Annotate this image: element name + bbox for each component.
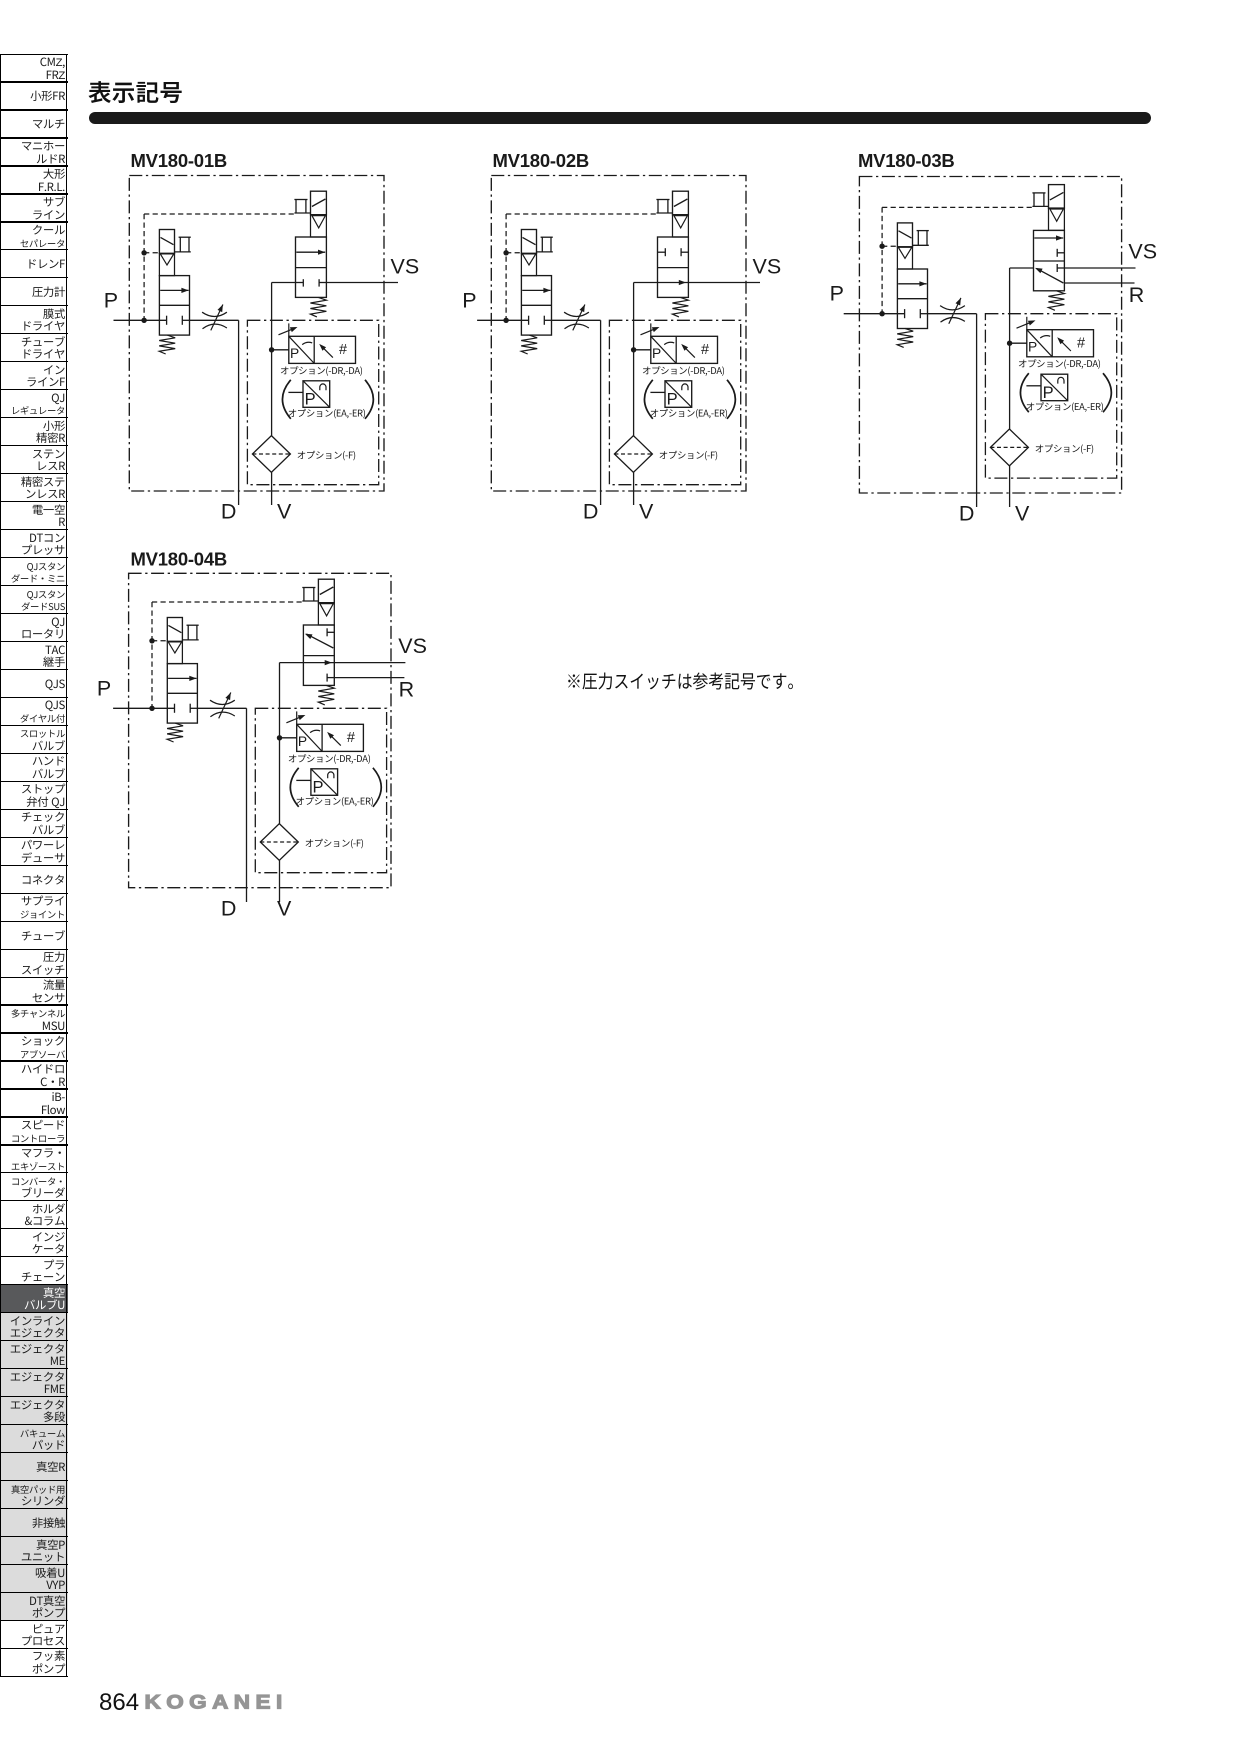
02B SV1 solenoid box [521,230,536,254]
svg-text:VS: VS [391,255,420,279]
02B pilot 2-port valve SV1 body [521,276,551,336]
03B wire: V supply riser [1010,267,1034,269]
03B port P supply line [844,313,905,315]
svg-text:P: P [104,288,118,312]
04B SV2 manual override [302,587,315,589]
02B SV2 manual override [656,199,669,201]
04B SV1 return spring [167,723,183,742]
04B wire to pressure switch [280,737,297,739]
04B pressure switch PS2 (option EA,-ER) [296,779,311,781]
03B pilot line (dashed) vertical [881,207,883,313]
02B wire: V supply riser [634,282,658,284]
04B option (EA,-ER) parentheses [290,768,298,807]
01B SV1 pilot triangle [159,253,174,275]
03B pilot 2-port valve SV1 body [897,269,927,329]
svg-text:オプション(-F): オプション(-F) [659,448,718,462]
svg-text:P: P [652,346,661,361]
svg-text:オプション(-DR,-DA): オプション(-DR,-DA) [280,363,363,377]
01B junction dot to pressure switch [269,347,274,352]
02B port P supply line [477,319,528,321]
01B pressure switch PS1 (option -DR,-DA) [289,336,356,363]
svg-text:D: D [583,499,599,523]
02B junction dot pilot/P line [503,318,508,323]
01B SV2 flow arrow (upper position) [296,251,325,253]
svg-text:VS: VS [1128,239,1157,263]
page header 表示記号 [88,74,183,108]
02B junction dot pilot/solenoid [503,250,508,255]
KOGANEI logo [145,1691,288,1714]
02B filter F (option -F) [614,436,652,473]
01B SV2 solenoid box [311,191,327,215]
svg-text:#: # [347,730,355,746]
03B junction dot pilot/solenoid [879,244,884,249]
01B wire: VS outlet [326,282,398,284]
04B SV1 solenoid box [167,618,182,642]
01B pilot line (dashed) to main valve solenoid [144,213,294,215]
svg-text:R: R [1129,283,1145,307]
03B SV2 exhaust diagonal to R [1037,268,1064,283]
04B SV2 flow arrow (lower position) to VS [303,662,334,664]
04B enclosure box (unit outline) MV180-04B [129,573,391,887]
01B wire: V outlet line [271,472,273,505]
01B pressure switch PS2 (option EA,-ER) [288,391,303,393]
03B SV1 return spring [897,329,913,348]
02B adjustable throttle (needle valve) [552,319,601,321]
02B options enclosure (dashed) [609,320,740,484]
svg-text:オプション(-DR,-DA): オプション(-DR,-DA) [1018,356,1101,370]
04B SV2 exhaust diagonal (upper position) [306,634,333,648]
svg-text:オプション(EA,-ER): オプション(EA,-ER) [296,794,374,808]
svg-text:P: P [97,676,111,700]
04B pilot line (dashed) vertical [151,602,153,708]
03B adjustable throttle (needle valve) [928,313,977,315]
03B junction dot pilot/P line [879,311,884,316]
03B SV1 pilot triangle [897,247,912,269]
03B pressure switch PS2 (option EA,-ER) [1026,385,1041,387]
02B SV1 manual override [541,236,553,238]
04B pressure switch PS1 (option -DR,-DA) [297,724,364,751]
03B SV1 solenoid box [897,223,912,247]
04B SV2 return spring [318,685,334,705]
02B wire to pressure switch [634,349,651,351]
04B SV2 solenoid box [318,579,334,603]
svg-text:P: P [290,346,299,361]
01B wire: D drain line [238,320,240,505]
svg-text:MV180-02B: MV180-02B [493,150,589,171]
02B enclosure box (unit outline) MV180-02B [491,176,746,492]
01B filter F (option -F) [252,436,290,473]
03B SV2 blocked VS (lower position) [1056,264,1058,272]
01B SV2 pilot triangle [311,215,327,237]
03B SV1 flow arrow (upper position) [898,283,926,285]
03B SV2 pilot triangle [1049,208,1065,230]
02B junction dot to pressure switch [631,347,636,352]
01B pressure switch adjustment arrow [288,323,290,336]
02B SV2 return spring [672,297,688,317]
04B pilot line (dashed) to pilot valve solenoid [152,640,167,642]
01B SV2 return spring [310,297,326,317]
svg-text:D: D [959,501,975,525]
svg-text:MV180-01B: MV180-01B [131,150,227,171]
04B SV1 pilot triangle [167,641,182,663]
01B enclosure box (unit outline) MV180-01B [129,176,384,492]
01B pilot line (dashed) to pilot valve solenoid [144,252,159,254]
02B SV1 flow arrow (upper position) [522,289,550,291]
svg-text:オプション(EA,-ER): オプション(EA,-ER) [650,406,728,420]
03B SV2 return spring [1048,291,1064,311]
svg-text:V: V [277,896,292,920]
02B throttle adjustment arrow [573,305,585,331]
01B SV1 manual override [179,236,191,238]
01B wire to pressure switch [272,349,289,351]
svg-text:オプション(EA,-ER): オプション(EA,-ER) [288,406,366,420]
svg-text:オプション(-F): オプション(-F) [1035,441,1094,455]
04B SV2 blocked VS (upper position) [326,628,328,636]
01B junction dot pilot/solenoid [141,250,146,255]
02B wire: D drain line [600,320,602,505]
04B SV2 pilot triangle [318,603,334,625]
02B SV1 blocked ports (lower position) [528,316,530,325]
04B pressure switch adjustment arrow [296,711,298,724]
04B junction dot pilot/P line [149,706,154,711]
01B options enclosure (dashed) [247,320,378,484]
svg-text:VS: VS [398,634,427,658]
04B throttle adjustment arrow [219,693,231,719]
svg-text:#: # [1077,336,1085,352]
svg-text:オプション(EA,-ER): オプション(EA,-ER) [1026,399,1104,413]
02B SV2 flow arrow (lower position) to VS [658,282,689,284]
02B SV2 blocked ports (upper position) [664,248,666,256]
02B wire: V outlet line [633,472,635,505]
01B SV2 manual override [294,199,307,201]
02B main valve SV2 body [658,237,689,297]
header rule bar [89,112,1151,125]
04B SV1 manual override [187,624,199,626]
04B wire: D drain line [246,708,248,902]
svg-text:P: P [830,282,844,306]
svg-text:MV180-04B: MV180-04B [131,549,227,570]
03B throttle adjustment arrow [949,298,961,324]
04B pilot 2-port valve SV1 body [167,664,197,724]
01B adjustable throttle (needle valve) [190,319,239,321]
svg-text:D: D [221,896,237,920]
03B junction dot to pressure switch [1007,341,1012,346]
01B pilot line (dashed) vertical [143,214,145,320]
02B wire: VS outlet [688,282,760,284]
svg-text:#: # [339,342,347,358]
03B wire to pressure switch [1010,342,1027,344]
svg-text:V: V [639,499,654,523]
01B SV1 flow arrow (upper position) [160,289,188,291]
04B wire: V supply riser [280,662,304,664]
02B SV1 pilot triangle [521,253,536,275]
03B filter F (option -F) [990,429,1028,466]
svg-text:#: # [701,342,709,358]
02B pressure switch PS1 (option -DR,-DA) [651,336,718,363]
04B main valve SV2 body [303,625,334,685]
svg-text:D: D [221,499,237,523]
03B SV2 flow arrow (upper position) [1034,237,1063,239]
03B SV1 manual override [917,230,929,232]
04B filter F (option -F) [260,824,298,861]
02B pilot line (dashed) to main valve solenoid [506,213,656,215]
note: pressure switch reference [566,668,803,694]
svg-text:V: V [277,499,292,523]
04B SV2 blocked R (lower position) [326,674,328,682]
04B junction dot to pressure switch [277,735,282,740]
svg-text:オプション(-DR,-DA): オプション(-DR,-DA) [288,751,371,765]
svg-text:P: P [462,288,476,312]
page number 864 [99,1689,139,1717]
04B junction dot pilot/solenoid [149,638,154,643]
01B SV2 blocked ports (lower position) [302,279,304,286]
04B options enclosure (dashed) [255,708,386,872]
02B option (EA,-ER) parentheses [644,380,652,419]
svg-text:オプション(-F): オプション(-F) [297,448,356,462]
svg-text:V: V [1015,501,1030,525]
04B port P supply line [113,707,174,709]
04B pilot line (dashed) to main valve solenoid [152,601,302,603]
02B pilot line (dashed) vertical [505,214,507,320]
02B SV2 pilot triangle [673,215,689,237]
04B wire: VS outlet [334,662,405,664]
01B port P supply line [114,319,167,321]
03B pilot line (dashed) to pilot valve solenoid [882,245,897,247]
03B wire: V outlet line [1009,466,1011,507]
04B wire: V outlet line [279,860,281,902]
02B pressure switch adjustment arrow [650,323,652,336]
02B SV2 solenoid box [673,191,689,215]
01B option (EA,-ER) parentheses [282,380,290,419]
03B pilot line (dashed) to main valve solenoid [882,206,1032,208]
01B throttle adjustment arrow [211,305,223,331]
svg-text:MV180-03B: MV180-03B [858,150,954,171]
02B SV1 return spring [521,335,537,354]
04B wire: R outlet [334,677,404,679]
03B option (EA,-ER) parentheses [1020,373,1028,412]
03B wire: D drain line [976,314,978,507]
03B pressure switch PS1 (option -DR,-DA) [1027,330,1094,357]
04B SV1 blocked ports (lower position) [174,704,176,713]
03B wire: VS outlet [1064,267,1135,269]
svg-text:R: R [399,677,415,701]
01B junction dot pilot/P line [141,318,146,323]
03B SV2 blocked R (upper position) [1056,249,1058,257]
svg-text:オプション(-F): オプション(-F) [305,836,364,850]
01B SV1 blocked ports (lower position) [166,316,168,325]
04B adjustable throttle (needle valve) [197,707,246,709]
01B wire: V supply riser [272,282,296,284]
03B SV2 manual override [1032,192,1045,194]
02B pressure switch PS2 (option EA,-ER) [650,391,665,393]
03B wire: R outlet [1064,282,1134,284]
03B SV1 blocked ports (lower position) [904,309,906,318]
svg-text:P: P [1028,339,1037,354]
01B main valve SV2 body [296,237,327,297]
03B pressure switch adjustment arrow [1026,317,1028,330]
sidebar product index [0,55,68,83]
01B pilot 2-port valve SV1 body [159,276,189,336]
01B SV1 return spring [159,335,175,354]
03B main valve SV2 body [1034,230,1065,290]
03B SV2 solenoid box [1049,185,1065,209]
03B enclosure box (unit outline) MV180-03B [859,177,1121,494]
04B SV1 flow arrow (upper position) [168,677,196,679]
svg-text:VS: VS [753,255,782,279]
01B SV1 solenoid box [159,230,174,254]
02B pilot line (dashed) to pilot valve solenoid [506,252,521,254]
svg-text:オプション(-DR,-DA): オプション(-DR,-DA) [642,363,725,377]
03B options enclosure (dashed) [985,314,1116,478]
svg-text:P: P [298,734,307,749]
